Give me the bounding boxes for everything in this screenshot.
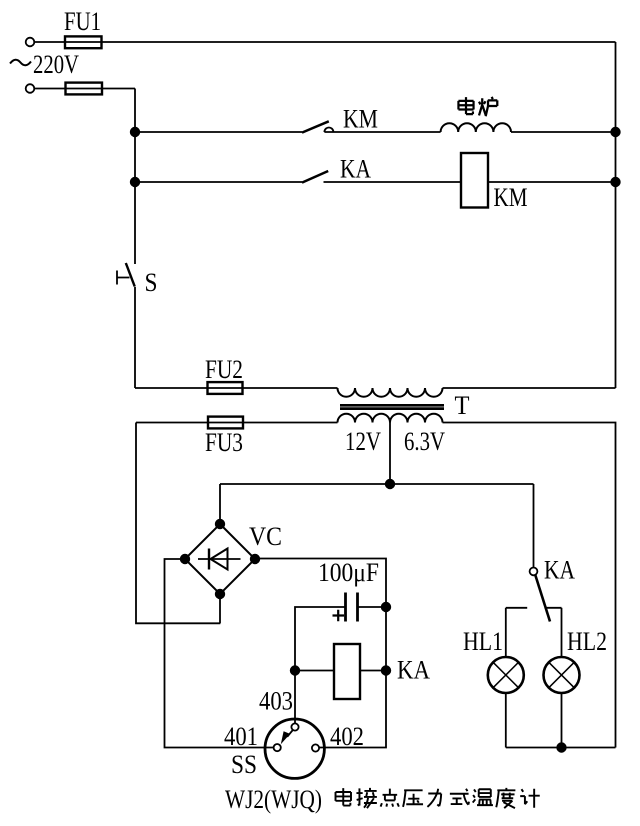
svg-text:FU2: FU2 [205, 355, 243, 384]
wire bottom bus [506, 747, 616, 749]
wire KA row right [488, 181, 616, 183]
transformer T primary winding [338, 388, 443, 397]
contact 403 [291, 723, 298, 730]
fuse FU (second line fuse) [66, 83, 103, 95]
wire KM row left [135, 131, 302, 133]
switch KA pilot contact pivot [530, 568, 538, 576]
svg-text:6.3V: 6.3V [404, 427, 445, 456]
switch S blade [126, 263, 135, 286]
svg-text:SS: SS [231, 750, 257, 779]
label + polarity [333, 610, 345, 621]
wire bridge bottom lead [219, 594, 221, 623]
transformer T secondary winding [338, 414, 443, 423]
wire left rail upper segment [134, 89, 136, 265]
svg-text:KA: KA [340, 155, 371, 184]
wire KA coil row right [360, 670, 386, 672]
node bridge right [251, 555, 260, 564]
svg-text:KM: KM [343, 105, 378, 134]
svg-text:HL2: HL2 [567, 627, 607, 656]
svg-text:VC: VC [249, 522, 282, 551]
svg-text:FU1: FU1 [64, 7, 101, 36]
node junction right-KM [611, 128, 620, 137]
wire FU2 row [135, 387, 338, 389]
node bridge top [216, 520, 225, 529]
contact 402 [312, 744, 319, 751]
svg-text:WJ2(WJQ): WJ2(WJQ) [225, 785, 322, 814]
node center tap junction [386, 480, 395, 489]
label 电炉 (electric furnace) [458, 97, 473, 114]
capacitor 100uF plates [346, 593, 358, 622]
wire lamp feeder down [533, 484, 535, 568]
transformer core bars [340, 405, 444, 408]
svg-text:S: S [145, 268, 158, 297]
wire bridge left lead to SS 401 [165, 559, 274, 748]
svg-text:402: 402 [330, 722, 364, 751]
node junction right-KA [611, 178, 620, 187]
svg-text:T: T [455, 391, 470, 420]
wire primary right to rail [443, 387, 616, 389]
wire right rail top [615, 42, 617, 388]
pointer arrow in SS [287, 730, 293, 737]
wire KM row middle [324, 131, 440, 133]
node junction left-KM [131, 128, 140, 137]
terminal circle lower left L2 [26, 84, 35, 93]
svg-text:HL1: HL1 [463, 627, 503, 656]
switch S actuator [117, 271, 130, 285]
svg-text:FU3: FU3 [205, 428, 243, 457]
switch contact KA (relay contact) [302, 171, 328, 183]
svg-text:KA: KA [397, 656, 430, 685]
diode inside VC [198, 558, 241, 560]
wire HL2 branch upper [561, 608, 563, 657]
svg-text:KA: KA [544, 556, 575, 585]
heater coil 电炉 [441, 123, 511, 132]
fuse FU2 [208, 382, 243, 394]
wire L2 through FU to left rail corner [34, 88, 135, 90]
switch KA blade [535, 575, 550, 622]
wire KM row right [511, 131, 616, 133]
wire mid distribution row [220, 483, 534, 485]
fuse FU1 [65, 36, 102, 48]
wire HL2 branch lower [561, 693, 563, 748]
svg-text:100μF: 100μF [318, 558, 379, 587]
wire capacitor branch left [295, 607, 346, 671]
node bridge left [181, 555, 190, 564]
wire bridge top lead [219, 484, 221, 524]
wire KA row left [135, 181, 302, 183]
fuse FU3 [208, 417, 243, 429]
node KA coil left junction [291, 666, 300, 675]
label ~220V [10, 60, 31, 66]
coil KA (relay coil) [334, 644, 360, 699]
coil KM (contactor coil) [461, 153, 488, 208]
wire center tap down [389, 423, 391, 485]
wire KA row middle [324, 181, 462, 183]
node cap right junction [382, 603, 391, 612]
wire HL1 branch lower [505, 693, 507, 748]
pressure gauge SS circle [265, 719, 324, 778]
wire 403 lead [294, 671, 296, 724]
contact 401 [274, 744, 281, 751]
wire HL1 branch upper [505, 608, 507, 657]
terminal circle top left L1 [26, 38, 35, 47]
svg-text:KM: KM [494, 183, 528, 212]
wire left rail B down from FU3 [136, 423, 220, 624]
label caption 电接点压力式温度计 [336, 788, 351, 805]
lamp HL1 [488, 657, 524, 693]
svg-text:403: 403 [259, 687, 293, 716]
wire secondary right [443, 423, 616, 748]
wire lamp branch top [506, 607, 562, 609]
node bridge bottom [216, 590, 225, 599]
lamp HL2 [544, 657, 580, 693]
node KA coil right junction [382, 666, 391, 675]
wire L1 to FU1 and across top to right rail [34, 41, 615, 43]
switch contact KM (main contact, with arc) [302, 121, 329, 132]
svg-text:401: 401 [224, 722, 258, 751]
node junction left-KA [131, 178, 140, 187]
wire bridge right lead [255, 559, 386, 748]
wire FU3 row [136, 422, 338, 424]
wire capacitor right [358, 606, 387, 608]
svg-text:220V: 220V [33, 50, 79, 79]
node bottom junction [557, 743, 566, 752]
wire left rail lower segment [134, 287, 136, 388]
rectifier bridge VC diamond [185, 524, 255, 594]
svg-text:12V: 12V [345, 427, 381, 456]
wire KA coil row left [295, 670, 334, 672]
